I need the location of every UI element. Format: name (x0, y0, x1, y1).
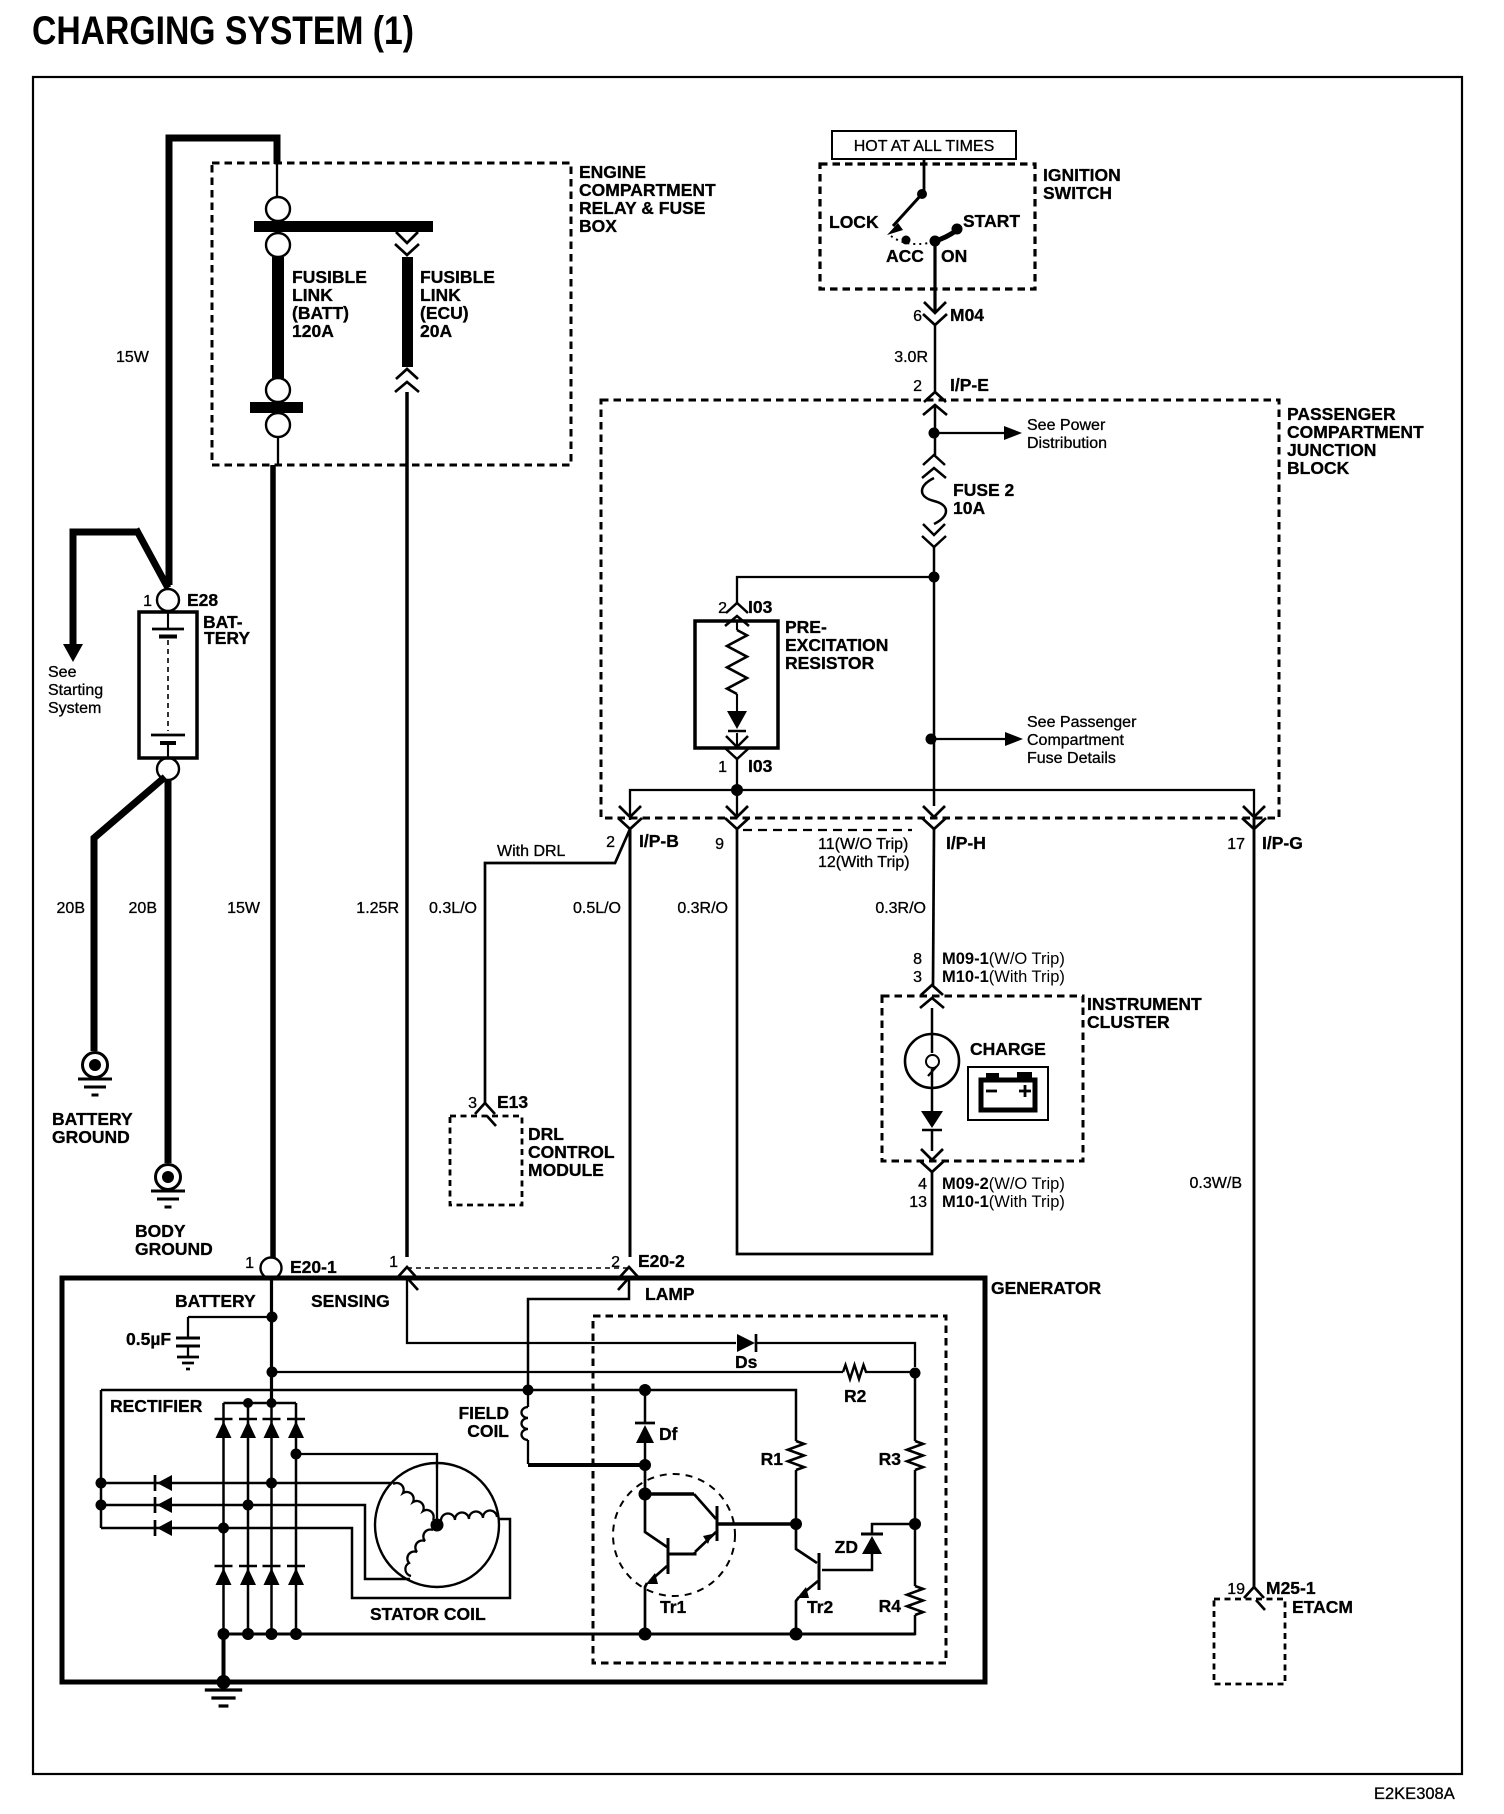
ignition switch box (820, 164, 1035, 289)
connector ring lower (266, 233, 290, 257)
svg-text:Starting: Starting (48, 682, 103, 699)
wire rectifier column 1 (222, 1403, 225, 1634)
connector E28 pin 1 (157, 589, 179, 611)
svg-text:M09-1(W/O Trip): M09-1(W/O Trip) (942, 950, 1065, 968)
wire 0.5L/O to E20-2 lamp (629, 829, 632, 1257)
svg-text:ZD: ZD (835, 1537, 858, 1557)
svg-text:10A: 10A (953, 498, 985, 518)
bus lamp-field (101, 1390, 796, 1441)
wire I03 to lamp bus (736, 759, 738, 790)
diode exciter row 1 (154, 1475, 157, 1491)
svg-text:9: 9 (715, 836, 724, 853)
svg-text:SWITCH: SWITCH (1043, 183, 1112, 203)
svg-text:See Passenger: See Passenger (1027, 714, 1137, 731)
stator coil (375, 1463, 499, 1587)
svg-text:BATTERY: BATTERY (52, 1109, 133, 1129)
svg-text:13: 13 (909, 1194, 927, 1211)
svg-text:Tr1: Tr1 (660, 1597, 687, 1617)
svg-text:11(W/O Trip): 11(W/O Trip) (818, 836, 908, 853)
svg-text:With DRL: With DRL (497, 843, 566, 860)
node lamp field junction (523, 1385, 534, 1396)
svg-text:120A: 120A (292, 321, 334, 341)
svg-text:4: 4 (918, 1176, 927, 1193)
connector E20-2 pin 1 sensing (397, 1267, 417, 1278)
diode main bottom column 3 (263, 1565, 281, 1568)
svg-text:ACC: ACC (886, 246, 924, 266)
svg-text:IGNITION: IGNITION (1043, 165, 1121, 185)
svg-text:1.25R: 1.25R (356, 900, 399, 917)
instrument cluster (882, 996, 1083, 1161)
svg-text:1: 1 (143, 593, 152, 610)
svg-text:GENERATOR: GENERATOR (991, 1278, 1102, 1298)
svg-text:2: 2 (718, 600, 727, 617)
wire phase row 1 (101, 1482, 392, 1485)
svg-text:GROUND: GROUND (135, 1239, 213, 1259)
svg-text:20B: 20B (129, 900, 157, 917)
connector M04 pin 6 (924, 302, 946, 313)
diode main top column 3 (263, 1418, 281, 1421)
fusible link (ECU) 20A (396, 232, 418, 243)
wire R2 node to R3 (914, 1373, 917, 1441)
svg-text:LAMP: LAMP (645, 1284, 695, 1304)
connector ring battery negative (157, 758, 179, 780)
charge lamp (905, 1034, 959, 1088)
svg-text:I03: I03 (748, 597, 773, 617)
node phase3 column1 (218, 1523, 229, 1534)
hot at all times tag (832, 131, 1016, 159)
arrow see passenger compartment fuse details (931, 738, 1005, 740)
diode Df (639, 1384, 651, 1396)
svg-text:PASSENGER: PASSENGER (1287, 404, 1396, 424)
generator box (62, 1278, 985, 1682)
connector M09-2 pin 4 / M10-1 pin 13 (921, 1149, 943, 1160)
diode main bottom column 1 (215, 1565, 233, 1568)
svg-text:JUNCTION: JUNCTION (1287, 440, 1376, 460)
battery ground G-bat (83, 1053, 108, 1078)
svg-text:Fuse Details: Fuse Details (1027, 750, 1116, 767)
diode main bottom column 4 (287, 1565, 305, 1568)
svg-text:19: 19 (1227, 1581, 1245, 1598)
node fuse output junction (929, 572, 940, 583)
svg-text:I/P-G: I/P-G (1262, 833, 1303, 853)
svg-text:6: 6 (913, 308, 922, 325)
battery icon (968, 1067, 1048, 1120)
bus bar (254, 221, 433, 232)
svg-text:COMPARTMENT: COMPARTMENT (1287, 422, 1424, 442)
DRL control module (450, 1116, 522, 1205)
connector row dashed link (407, 1267, 627, 1269)
pre-excitation resistor (695, 621, 778, 748)
svg-text:LINK: LINK (292, 285, 333, 305)
svg-text:LINK: LINK (420, 285, 461, 305)
svg-text:SENSING: SENSING (311, 1291, 390, 1311)
svg-text:I/P-E: I/P-E (950, 375, 989, 395)
svg-text:0.3R/O: 0.3R/O (677, 900, 728, 917)
svg-text:Tr2: Tr2 (807, 1597, 834, 1617)
svg-text:See: See (48, 664, 77, 681)
svg-text:Df: Df (659, 1424, 678, 1444)
svg-text:MODULE: MODULE (528, 1160, 604, 1180)
svg-text:CLUSTER: CLUSTER (1087, 1012, 1170, 1032)
wire 9 stub (736, 790, 738, 818)
svg-text:17: 17 (1227, 836, 1245, 853)
wire rectifier column 3 (270, 1403, 273, 1634)
svg-text:E28: E28 (187, 590, 218, 610)
capacitor 0.5uF (267, 1312, 278, 1323)
wire to pre-excitation resistor (737, 577, 934, 603)
ETACM (1214, 1599, 1285, 1684)
connector row divider (743, 829, 912, 831)
svg-text:20A: 20A (420, 321, 452, 341)
wire phase row 2 (101, 1505, 410, 1579)
svg-text:RELAY & FUSE: RELAY & FUSE (579, 198, 705, 218)
arrow see starting system (73, 532, 139, 644)
svg-text:R4: R4 (879, 1596, 902, 1616)
wire rectifier column 4 (295, 1403, 298, 1634)
wire 15W battery to generator E20-1 (270, 465, 276, 1258)
node exciter row2 (96, 1500, 107, 1511)
svg-text:E20-1: E20-1 (290, 1257, 337, 1277)
connector E13 pin 3 (475, 1103, 495, 1114)
svg-text:RESISTOR: RESISTOR (785, 653, 875, 673)
wire sensing to Ds (407, 1278, 736, 1343)
wire E20-1 into generator (270, 1279, 273, 1404)
svg-text:Compartment: Compartment (1027, 732, 1124, 749)
connector E20-1 pin 1 battery terminal (261, 1258, 282, 1279)
svg-text:2: 2 (913, 378, 922, 395)
svg-text:RECTIFIER: RECTIFIER (110, 1396, 203, 1416)
connector I/P-E pin 2 (924, 392, 946, 402)
svg-text:(ECU): (ECU) (420, 303, 469, 323)
svg-text:INSTRUMENT: INSTRUMENT (1087, 994, 1202, 1014)
bus ground bottom (224, 1633, 916, 1636)
svg-text:ETACM: ETACM (1292, 1597, 1353, 1617)
wire junction block feed (934, 405, 937, 455)
node ground Tr1 (639, 1628, 652, 1641)
svg-text:GROUND: GROUND (52, 1127, 130, 1147)
svg-text:3.0R: 3.0R (894, 349, 928, 366)
wire lamp feed bus (630, 790, 1254, 820)
svg-text:M25-1: M25-1 (1266, 1578, 1316, 1598)
svg-text:FUSE 2: FUSE 2 (953, 480, 1015, 500)
diode main top column 1 (215, 1418, 233, 1421)
connector I/P-G pin 17 (1243, 806, 1265, 817)
diode main top column 4 (287, 1418, 305, 1421)
svg-text:COMPARTMENT: COMPARTMENT (579, 180, 716, 200)
fusible link (BATT) 120A (272, 257, 284, 378)
zener diode ZD (872, 1524, 915, 1533)
node ground c1 (218, 1628, 230, 1640)
svg-text:BODY: BODY (135, 1221, 186, 1241)
svg-text:I/P-B: I/P-B (639, 831, 679, 851)
wire stator center tap (296, 1454, 437, 1468)
svg-text:1: 1 (718, 759, 727, 776)
svg-text:COIL: COIL (467, 1421, 509, 1441)
connector I03 pin 1 (726, 736, 748, 747)
svg-text:I/P-H: I/P-H (946, 833, 986, 853)
wire 0.3R/O cluster feed (933, 829, 934, 985)
node top link c2 (243, 1398, 253, 1408)
svg-text:DRL: DRL (528, 1124, 564, 1144)
node battery R2 tap (267, 1367, 278, 1378)
svg-text:0.3R/O: 0.3R/O (875, 900, 926, 917)
node exciter row1 (96, 1478, 107, 1489)
svg-text:R2: R2 (844, 1386, 867, 1406)
svg-text:TERY: TERY (204, 628, 250, 648)
wire 3.0R (934, 325, 937, 391)
svg-text:BLOCK: BLOCK (1287, 458, 1350, 478)
node R1 Tr junction (790, 1518, 802, 1530)
engine compartment relay & fuse box (212, 163, 571, 465)
wire 20B to battery ground (94, 777, 165, 1051)
field coil (527, 1390, 529, 1407)
svg-text:BATTERY: BATTERY (175, 1291, 256, 1311)
fuse FUSE 2 10A (923, 455, 945, 465)
node phase2 column2 (243, 1500, 254, 1511)
connector E20-2 pin 2 lamp (619, 1267, 639, 1278)
wire cluster lamp feed (931, 1008, 934, 1053)
diode instrument cluster (921, 1111, 943, 1128)
svg-text:FUSIBLE: FUSIBLE (292, 267, 367, 287)
svg-text:3: 3 (468, 1095, 477, 1112)
svg-text:M09-2(W/O Trip): M09-2(W/O Trip) (942, 1175, 1065, 1193)
svg-text:0.3L/O: 0.3L/O (429, 900, 477, 917)
svg-text:E13: E13 (497, 1092, 528, 1112)
svg-text:R3: R3 (879, 1449, 902, 1469)
diode exciter row 2 (154, 1497, 157, 1513)
wire rectifier left leg (100, 1390, 103, 1528)
generator ground (222, 1634, 226, 1682)
wire battery tap to R2 (272, 1371, 843, 1373)
svg-text:15W: 15W (227, 900, 261, 917)
resistor R2 (843, 1365, 866, 1379)
node stator tap column4 (291, 1449, 302, 1460)
wire phase row 3 (101, 1519, 510, 1598)
svg-text:M10-1(With Trip): M10-1(With Trip) (942, 1193, 1065, 1211)
wire Ds to R2 node (756, 1343, 915, 1367)
connector pin 9 (726, 806, 748, 817)
voltage regulator box (593, 1316, 946, 1663)
svg-text:1: 1 (389, 1254, 398, 1271)
svg-text:CONTROL: CONTROL (528, 1142, 615, 1162)
svg-text:2: 2 (606, 834, 615, 851)
connector I/P-H pins 11/12 (923, 806, 945, 817)
node I03 junction (731, 784, 743, 796)
resistor R4 (907, 1586, 923, 1615)
svg-text:0.5L/O: 0.5L/O (573, 900, 621, 917)
svg-text:12(With Trip): 12(With Trip) (818, 854, 910, 871)
svg-text:PRE-: PRE- (785, 617, 827, 637)
diode main top column 2 (239, 1418, 257, 1421)
diode exciter row 3 (154, 1520, 157, 1536)
node field coil junction (639, 1459, 651, 1471)
svg-text:M10-1(With Trip): M10-1(With Trip) (942, 968, 1065, 986)
svg-text:Ds: Ds (735, 1352, 758, 1372)
diode main bottom column 2 (239, 1565, 257, 1568)
wire lamp into generator (528, 1279, 629, 1385)
diode pre-excitation (727, 711, 747, 729)
svg-text:M04: M04 (950, 305, 984, 325)
svg-text:ON: ON (941, 246, 967, 266)
svg-text:1: 1 (245, 1255, 254, 1272)
svg-text:BOX: BOX (579, 216, 617, 236)
svg-text:15W: 15W (116, 349, 150, 366)
connector I/P-B pin 2 (619, 806, 641, 817)
svg-text:EXCITATION: EXCITATION (785, 635, 888, 655)
body ground G-body (156, 1165, 181, 1190)
svg-text:8: 8 (913, 951, 922, 968)
svg-text:START: START (963, 211, 1020, 231)
node R2 Ds junction (910, 1368, 921, 1379)
wire 1.25R ecu link to sensing (405, 392, 409, 1257)
node ground c3 (266, 1628, 278, 1640)
svg-text:20B: 20B (57, 900, 85, 917)
node ground c2 (242, 1628, 254, 1640)
ignition switch contacts (923, 160, 926, 192)
passenger compartment junction block (601, 400, 1279, 818)
arrow see power distribution (934, 432, 1004, 434)
svg-text:I03: I03 (748, 756, 773, 776)
connector I03 pin 2 (726, 603, 748, 613)
connector M25-1 pin 19 (1244, 1587, 1264, 1598)
svg-text:System: System (48, 700, 101, 717)
battery B1 (139, 612, 197, 758)
resistor R1 (788, 1441, 804, 1470)
svg-text:ENGINE: ENGINE (579, 162, 646, 182)
svg-text:CHARGE: CHARGE (970, 1039, 1046, 1059)
wire battery positive feed (169, 138, 277, 585)
svg-text:0.3W/B: 0.3W/B (1190, 1175, 1242, 1192)
node phase1 column3 (266, 1478, 277, 1489)
svg-text:Distribution: Distribution (1027, 435, 1107, 452)
svg-text:LOCK: LOCK (829, 212, 879, 232)
transistor Tr2 (796, 1524, 817, 1563)
svg-text:FIELD: FIELD (458, 1403, 509, 1423)
wire R3 to R4 (914, 1524, 917, 1586)
resistor R3 (907, 1441, 923, 1470)
wire rectifier top link (224, 1402, 297, 1405)
svg-text:3: 3 (913, 969, 922, 986)
svg-text:HOT AT ALL TIMES: HOT AT ALL TIMES (854, 138, 995, 155)
connector ring upper (266, 197, 290, 221)
svg-text:CHARGING SYSTEM (1): CHARGING SYSTEM (1) (32, 9, 414, 53)
svg-text:(BATT): (BATT) (292, 303, 349, 323)
wire fuse 2 output (933, 547, 936, 806)
svg-text:R1: R1 (761, 1449, 784, 1469)
node fuse details junction (926, 734, 937, 745)
diode Ds (737, 1334, 755, 1352)
wire 0.3W/B to ETACM (1253, 818, 1256, 1587)
wire 0.3R/O charge return (737, 829, 932, 1254)
svg-text:STATOR COIL: STATOR COIL (370, 1604, 486, 1624)
node ground Tr2 (790, 1628, 803, 1641)
node top link c3 (267, 1398, 277, 1408)
wire rectifier column 2 (247, 1403, 250, 1634)
node power distribution junction (929, 428, 940, 439)
node ground c4 (290, 1628, 302, 1640)
wire 20B to body ground (165, 780, 172, 1163)
svg-text:E20-2: E20-2 (638, 1251, 685, 1271)
svg-text:0.5µF: 0.5µF (126, 1329, 171, 1349)
svg-text:FUSIBLE: FUSIBLE (420, 267, 495, 287)
wire ignition switch output (933, 241, 936, 311)
node R3 R4 junction (909, 1518, 921, 1530)
svg-text:See Power: See Power (1027, 417, 1106, 434)
transistor Tr1 darlington (613, 1474, 735, 1596)
wire 0.3L/O with DRL (485, 829, 630, 1103)
svg-text:E2KE308A: E2KE308A (1374, 1785, 1455, 1803)
